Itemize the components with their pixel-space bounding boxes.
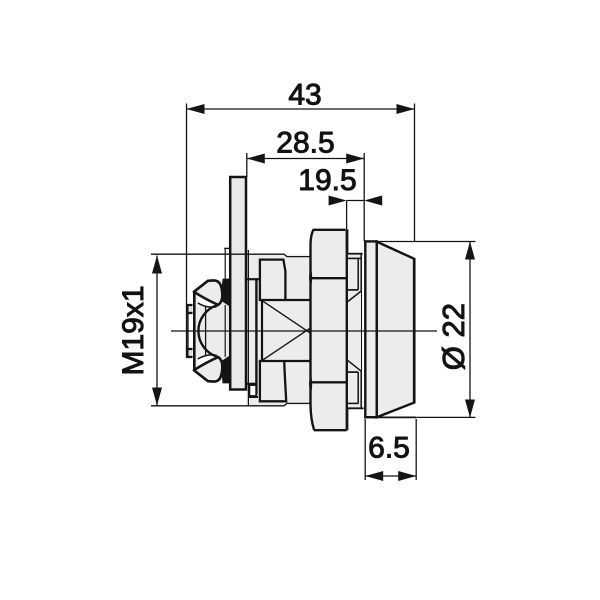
barrel grey body [247,255,311,406]
collar chamfer top [348,291,362,302]
head bottom tooth [194,357,222,382]
dim 19.5 left outside arrow [329,196,347,206]
head dome bulge grey [198,305,218,357]
dim 43 left arrow [187,104,205,114]
dim diameter 22 bottom arrow [465,400,475,418]
collar inner ring bottom top edge [348,371,358,373]
dim M19x1 top arrow [152,256,162,274]
dim 28.5 left extension line [246,153,248,177]
hex nut bottom face edge [311,381,346,383]
knob back band [365,241,377,417]
hex nut right face [346,229,349,430]
head plate inner edge [205,282,207,380]
collar outer edge top [360,255,362,291]
hex nut left profile [311,230,315,430]
dim 28.5 right arrow [346,154,364,164]
flat X upper-left diagonal [262,301,306,331]
hex nut top edge [313,229,346,231]
washer front hidden edge [224,249,226,382]
collar inner ring bottom right edge [357,372,359,403]
step edge bottom second [249,396,259,398]
collar grey [348,254,362,409]
dim 28.5 left arrow [247,154,265,164]
dim 6.5 left extension line [364,419,366,480]
collar waist silhouette [361,291,363,371]
thread bump top [260,260,286,300]
collar bottom inner edge [348,402,359,404]
thread bump bottom [260,361,286,401]
dim 19.5 line [347,200,365,202]
head top crescent [194,292,218,307]
bottom left tab [187,349,192,357]
flat X lower-right diagonal [307,331,351,361]
dim 6.5 line [365,475,416,477]
thread bump top lower edge [259,299,310,301]
svg-text:M19x1: M19x1 [117,285,150,375]
collar top edge [348,253,363,255]
head cluster grey silhouette [194,281,229,381]
collar outer edge bottom [360,371,362,407]
centerline [171,330,437,332]
washer top edge [224,247,230,249]
dim 43 right arrow [397,104,415,114]
top left tab [187,305,192,313]
collar bottom edge [348,407,364,409]
step edge top [247,278,261,280]
dim 43 left extension line [186,104,188,359]
svg-text:28.5: 28.5 [276,126,334,159]
collar top inner edge [348,257,361,259]
dim 19.5 right outside arrow [364,196,382,206]
dim 43 right extension line [414,104,416,242]
dim 6.5 left arrow [365,471,383,481]
dim 6.5 right extension line [415,419,417,480]
dim M19x1 bottom arrow [152,388,162,406]
collar inner ring top bottom edge [348,289,358,291]
head top inner scallop [198,303,217,307]
black gap top between tooth and cam [222,279,230,307]
collar chamfer bottom [348,360,362,371]
dim diameter 22 top arrow [465,242,475,260]
flat X upper-right diagonal [307,301,351,331]
hex nut left cusp bottom [310,377,312,392]
flat X lower-left diagonal [262,331,306,361]
step pocket bottom [249,385,256,396]
dim diameter 22 bottom extension line [416,416,475,418]
washer rear edge [247,250,249,406]
head bottom inner scallop [198,355,217,359]
head top tooth [194,280,222,305]
dim 19.5 left extension line [346,201,348,255]
svg-text:6.5: 6.5 [368,432,410,465]
dim M19x1 top extension line [151,254,310,256]
knob cone [377,242,414,418]
dim M19x1 bottom extension line [151,403,310,405]
head bottom crescent [194,355,218,370]
knob front face emphasis [413,258,416,403]
collar inner ring top right edge [357,258,359,290]
svg-text:Ø 22: Ø 22 [436,303,471,370]
hex nut left cusp top [310,270,312,285]
dim 28.5 and 19.5 shared right extension line [363,153,365,241]
head plate outline [194,281,212,381]
flat X left edge [261,301,263,361]
dim M19x1 line [156,256,158,406]
waist edge [255,279,257,394]
head dome arc [198,305,218,357]
svg-text:43: 43 [288,79,321,112]
thread bump bottom upper edge [259,360,310,362]
front face tab line [187,305,189,357]
dim 6.5 right arrow [398,471,416,481]
hex nut bottom edge [314,429,347,431]
washer hidden edge behind dome [224,305,226,357]
knob base bottom line [364,416,416,418]
hex nut grey body [311,230,348,430]
dim 28.5 line [247,158,364,160]
svg-text:19.5: 19.5 [298,164,356,197]
dim 43 line [187,108,415,110]
hex nut top face edge [312,277,347,279]
black gap bottom between tooth and cam [222,356,230,384]
dim diameter 22 top extension line [378,241,476,243]
dim diameter 22 line [469,242,471,418]
cam bar [230,177,246,390]
step edge bottom [247,383,258,385]
